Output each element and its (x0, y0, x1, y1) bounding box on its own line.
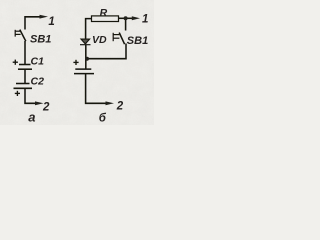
resistor R body (92, 16, 119, 22)
svg-text:SB1: SB1 (30, 33, 51, 45)
svg-text:1: 1 (48, 16, 54, 28)
svg-text:SB1: SB1 (127, 35, 148, 47)
svg-text:2: 2 (42, 101, 50, 113)
svg-text:C2: C2 (31, 76, 45, 88)
arrow terminal 1 (left) (40, 15, 49, 19)
plus sign C1 (13, 60, 18, 65)
plus sign C2 (15, 91, 20, 96)
wire: junction down to switch (125, 18, 127, 30)
wire: terminal 2 run (25, 88, 36, 103)
wire: diode to lower junction (85, 45, 87, 69)
switch SB1 (right) actuator button (113, 33, 119, 41)
wire: vertical run switch to C1 (24, 41, 26, 65)
svg-text:1: 1 (142, 13, 148, 25)
wire: terminal 2 run (right) (86, 73, 107, 103)
jumper wire junction to switch bottom (86, 44, 126, 59)
switch SB1 (left) actuator button (15, 30, 20, 37)
junction dot (lower) (85, 57, 89, 61)
wire: top left corner to resistor (86, 19, 92, 44)
capacitor C plates (right) (75, 68, 91, 70)
wire: resistor to junction (119, 17, 134, 19)
svg-text:R: R (100, 7, 108, 19)
diode VD (80, 39, 91, 45)
junction dot (top right) (124, 16, 128, 20)
wire C1 to C2 (24, 69, 26, 83)
capacitor C2 plates (16, 83, 30, 85)
wire: terminal 1 horizontal run (25, 17, 40, 30)
switch SB1 (right) movable contact (119, 33, 124, 45)
svg-text:б: б (99, 113, 107, 125)
plus sign C (right) (73, 60, 78, 65)
arrow terminal 2 (right) (106, 101, 115, 105)
switch SB1 (left) movable contact (20, 30, 26, 42)
svg-text:2: 2 (116, 101, 124, 113)
svg-text:C1: C1 (31, 56, 45, 68)
arrow terminal 2 (left) (35, 101, 44, 105)
arrow terminal 1 (right) (132, 16, 140, 20)
svg-text:а: а (28, 109, 35, 124)
capacitor C1 plates (19, 64, 31, 66)
svg-text:VD: VD (92, 34, 107, 46)
